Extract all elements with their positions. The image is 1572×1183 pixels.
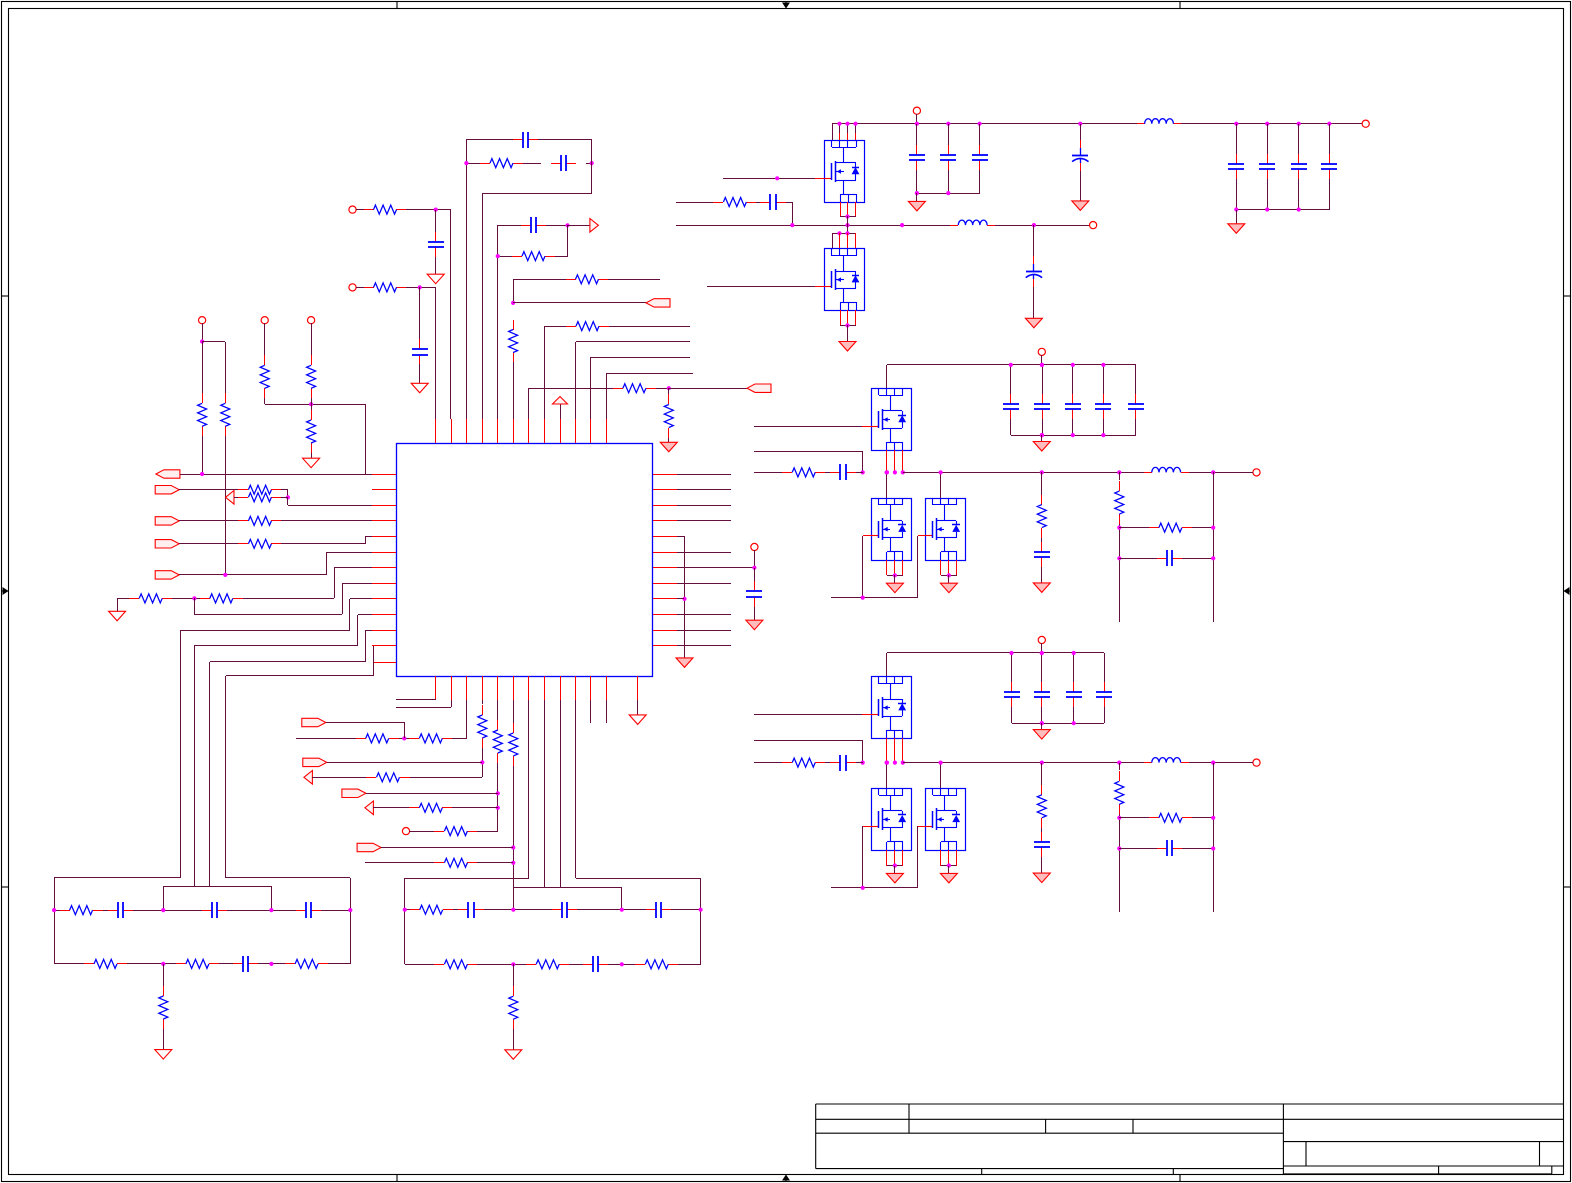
wire c3 ls2 src — [941, 865, 957, 867]
wire c3 bank gnd — [1041, 723, 1043, 730]
wire pin1-top vertical — [435, 290, 437, 419]
capacitor C12 — [646, 909, 656, 911]
junction f2 cap4 — [699, 908, 703, 912]
wire c2 bank col3 — [1103, 365, 1105, 394]
wire rc right edge — [567, 225, 569, 256]
junction c2 snr2 — [1211, 526, 1215, 530]
wire pin3-top vertical — [466, 163, 468, 419]
wire row862 — [365, 862, 434, 864]
wire pinB4 chain — [482, 700, 484, 704]
IC U1 bottom pins — [436, 676, 638, 700]
capacitor C4 — [419, 339, 421, 349]
wire pin6 lower — [513, 362, 515, 419]
tag outB1 — [302, 718, 326, 726]
capacitor C c3-1 — [1041, 682, 1043, 692]
junction c2 rail1 — [1040, 363, 1044, 367]
junction row388 — [667, 386, 671, 390]
resistor R33 — [513, 723, 515, 733]
wire pull3 bot — [311, 453, 313, 458]
wire c3 bank col1 — [1041, 653, 1043, 682]
transistor Q7 — [871, 788, 912, 851]
wire row630p — [366, 630, 372, 632]
wire c3 vg chain2 — [1041, 828, 1043, 833]
wire c2 vg chain — [1041, 472, 1043, 495]
wire c3 in2 drop — [862, 740, 864, 763]
resistor R8 — [311, 410, 313, 420]
transistor Q6 — [871, 676, 912, 739]
wire c1 rcrow — [676, 202, 713, 204]
wire row552 — [326, 552, 372, 554]
wire f1 gnd drop2 — [163, 1029, 165, 1050]
wire node A vertical — [466, 140, 468, 163]
wire riser543 — [365, 536, 367, 544]
junction c3 rail0 — [1009, 651, 1013, 655]
wire rrow614 — [677, 614, 731, 616]
junction c2 s2 — [947, 573, 951, 577]
capacitor C c3-2 — [1073, 682, 1075, 692]
capacitor C3 — [435, 232, 437, 242]
resistor R10 — [566, 279, 576, 281]
junction c2 sn2 — [1211, 470, 1215, 474]
wire c2 bankbus — [1011, 435, 1136, 437]
wire bulk2 drop2 — [1033, 287, 1035, 318]
wire row574 — [179, 574, 326, 576]
wire c2 bank col0 — [1010, 365, 1012, 394]
wire c1 midrail — [676, 225, 950, 227]
wire row279 — [513, 279, 566, 281]
wire c2 midrail R — [903, 472, 1144, 474]
wire c3 out — [1233, 762, 1253, 764]
wire c2 hs leads — [886, 450, 888, 472]
power arrow VDD — [553, 397, 568, 405]
capacitor C18 — [979, 145, 981, 155]
junction f2 cap3 — [620, 908, 624, 912]
junction c2 ls2 — [939, 470, 943, 474]
wire row630 — [180, 630, 350, 632]
wire q2 src bus — [840, 325, 856, 327]
junction c2 mid vg — [1040, 470, 1044, 474]
resistor R c3-vg — [1041, 785, 1043, 795]
resistor R29 — [366, 777, 376, 779]
wire gnd up — [117, 598, 119, 611]
capacitor C2 — [551, 163, 561, 165]
wire c2 ls1 src — [887, 575, 903, 577]
wire f1 shelf dropR — [271, 886, 273, 910]
wire q1 lead2 — [847, 124, 849, 140]
wire row738 — [296, 738, 356, 740]
wire c3 gate1 — [754, 714, 862, 716]
resistor R28 — [482, 705, 484, 715]
wire bank2 gnd — [1236, 210, 1238, 224]
wire tagB3 — [366, 793, 498, 795]
wire rrow645 — [677, 645, 731, 647]
capacitor C11 — [552, 909, 562, 911]
junction decap — [752, 566, 756, 570]
ground c2-B — [940, 583, 957, 593]
wire decap top — [754, 550, 756, 568]
wire feeder3 — [209, 662, 211, 886]
wire c2 out — [1233, 472, 1253, 474]
wire pin10 vertical — [575, 342, 577, 419]
wire c1 gate2 — [707, 286, 815, 288]
wire bank2 bus — [1236, 209, 1329, 211]
junction c3 gate — [861, 886, 865, 890]
wire pullcol1 top — [202, 323, 204, 342]
wire to arrow — [568, 225, 590, 227]
ground c3-D — [1033, 873, 1050, 883]
wire c3 hs leads — [886, 738, 888, 763]
wire c2 vg chain2 — [1041, 538, 1043, 543]
resistor R c3-sn2 — [1149, 817, 1159, 819]
wire pinB1 tail — [435, 699, 437, 700]
wire f2 shelf — [513, 887, 622, 889]
junction c3 ls1 — [885, 761, 889, 765]
wire bank1 col1 — [916, 124, 918, 145]
wire c3 vg chain3 — [1041, 857, 1043, 873]
junction c2 sn1 — [1117, 470, 1121, 474]
wire row497 — [234, 497, 240, 499]
junction pinB5b — [496, 806, 500, 810]
resistor R c3-sn — [1119, 771, 1121, 781]
resistor R20 — [200, 598, 210, 600]
wire rrow1 — [677, 489, 731, 491]
junction q1 src — [845, 214, 849, 218]
junction c3 s1 — [893, 863, 897, 867]
junction c1 mid4 — [1032, 223, 1036, 227]
junction c1 rail6 — [1265, 122, 1269, 126]
wire q2 leads — [832, 233, 834, 248]
resistor R9 — [512, 256, 522, 258]
capacitor C c3-vg — [1041, 832, 1043, 842]
wire c3 midrail R — [903, 762, 1144, 764]
wire rrow630 — [677, 630, 731, 632]
wire f2 botrow — [405, 964, 434, 966]
capacitor C7 — [202, 910, 212, 912]
wire row520 — [179, 520, 240, 522]
wire pin5 vertical — [497, 225, 499, 419]
wire c2 sn1 v — [1119, 472, 1121, 480]
inductor L2 — [950, 225, 958, 227]
wire c3 bank col2 — [1073, 653, 1075, 682]
junction rc bot — [496, 254, 500, 258]
resistor R c2-sn — [1119, 481, 1121, 491]
capacitor C c2-0 — [1010, 394, 1012, 404]
wire c2 bank gnd — [1041, 435, 1043, 441]
wire f2 gnd drop — [513, 964, 515, 986]
wire pinB6 chain2 — [513, 766, 515, 910]
junction c1 rail4 — [1078, 122, 1082, 126]
wire c2 sn1 v2 — [1119, 524, 1121, 622]
junction c2 busg — [1040, 433, 1044, 437]
wire c3 sn1 v2 — [1119, 814, 1121, 912]
wire bank2 col4 — [1329, 124, 1331, 154]
wire f2 top right — [576, 878, 701, 880]
capacitor C c2-2 — [1072, 394, 1074, 404]
wire c2 bank col2 — [1072, 365, 1074, 394]
wire c3 vin drop — [1041, 643, 1043, 653]
wire bank2 col1 — [1236, 124, 1238, 154]
junction c2 ls1 — [885, 470, 889, 474]
junction c2 bus1 — [1040, 433, 1044, 437]
wire pinB6 chain — [513, 700, 515, 723]
wire row777 — [312, 777, 366, 779]
terminal c1 vout2 — [1090, 222, 1097, 229]
capacitor C9 — [233, 963, 243, 965]
junction f1 cap1 — [52, 908, 56, 912]
wire pin8 vertical — [544, 326, 546, 419]
junction node B — [590, 161, 594, 165]
wire riser614L — [194, 598, 196, 614]
wire pin6 upper — [513, 279, 515, 303]
wire c3 in2 — [754, 740, 863, 742]
wire row341 — [576, 341, 690, 343]
capacitor C23 — [1329, 154, 1331, 164]
wire bank1 col2b — [948, 170, 950, 193]
junction c1 rail3 — [978, 122, 982, 126]
wire c3 hs drop — [886, 653, 888, 676]
tag in5 — [155, 571, 179, 579]
junction c3 rail2 — [1072, 651, 1076, 655]
junction c3 bus2 — [1072, 721, 1076, 725]
IC U1 top pins — [436, 419, 607, 443]
capacitor C c2-3 — [1103, 394, 1105, 404]
wire c2 s2 drop — [948, 575, 950, 583]
junction c1 rail7 — [1297, 122, 1301, 126]
wire gndcol right — [684, 536, 686, 658]
junction c3 snr1 — [1117, 816, 1121, 820]
capacitor C14 — [754, 581, 756, 591]
wire c3 s2 drop — [948, 866, 950, 873]
wire mid loop row — [466, 163, 480, 165]
arrow out1 — [590, 219, 599, 233]
wire f1 shelf — [163, 886, 271, 888]
junction c3 sn2 — [1211, 761, 1215, 765]
capacitor C21 — [1267, 154, 1269, 164]
capacitor C c2-1 — [1042, 394, 1044, 404]
junction f1 bot2 — [269, 962, 273, 966]
wire bank2 col1b — [1236, 179, 1238, 210]
tag outB2 — [303, 758, 327, 766]
wire bank2 col2 — [1267, 124, 1269, 154]
inductor L1 — [1137, 123, 1145, 125]
capacitor C15 — [760, 202, 770, 204]
junction c3 mid vg — [1040, 761, 1044, 765]
wire tagB1 — [326, 722, 404, 724]
wire row357 — [591, 357, 690, 359]
wire row567p — [334, 567, 372, 569]
wire row675 — [226, 675, 374, 677]
junction q2 t2 — [845, 231, 849, 235]
ground G12 — [908, 201, 925, 211]
junction c2 gate — [861, 596, 865, 600]
wire drop to tagrow — [365, 404, 367, 474]
wire row1 — [356, 209, 364, 211]
terminal J5 — [308, 317, 315, 324]
wire rrow0 — [677, 474, 731, 476]
capacitor C c2-in — [830, 472, 840, 474]
tag in1 — [156, 470, 180, 478]
junction c2 rail2 — [1071, 363, 1075, 367]
wire bulk2 drop — [1033, 225, 1035, 256]
resistor R15 — [238, 489, 248, 491]
wire riser567 — [334, 568, 336, 598]
capacitor C13 — [583, 964, 593, 966]
wire pinB5 chain2 — [497, 763, 499, 831]
resistor R32 — [434, 831, 444, 833]
wire bank1 col2 — [948, 124, 950, 145]
resistor R40 — [713, 202, 723, 204]
wire rrow552 — [677, 552, 731, 554]
wire row661 — [210, 661, 366, 663]
ground G8 — [505, 1050, 522, 1060]
wire q1 src bus — [840, 216, 856, 218]
resistor R25 — [163, 986, 165, 996]
resistor R16 — [238, 497, 248, 499]
wire f1 left edge — [54, 878, 56, 964]
wire cap drop2b — [419, 364, 421, 383]
wire q2 gnd drop — [847, 325, 849, 342]
resistor R1 — [480, 163, 490, 165]
wire c3 snc rung — [1119, 848, 1157, 850]
ground G3 — [303, 458, 320, 468]
junction q1 d2 — [845, 122, 849, 126]
wire to tag388 — [669, 388, 747, 390]
wire pin9 vertical — [560, 404, 562, 419]
wire pinB5 chain — [497, 700, 499, 720]
wire jog to pin4 — [482, 193, 592, 195]
wire c3 bank col3 — [1104, 653, 1106, 682]
resistor R12 — [613, 388, 623, 390]
wire riser614 — [357, 615, 359, 646]
wire c3 bankbus — [1012, 723, 1104, 725]
wire c3 g2 riser — [917, 826, 919, 888]
wire riser599 — [349, 599, 351, 630]
wire row599p — [350, 598, 372, 600]
wire cap drop2 — [419, 287, 421, 340]
wire row2 corner — [435, 287, 437, 419]
junction q1 d1 — [837, 122, 841, 126]
tag out302 — [646, 299, 670, 307]
wire bulk1 drop2 — [1080, 171, 1082, 201]
terminal J3 — [199, 317, 206, 324]
wire node B drop — [591, 140, 593, 193]
wire c3 bank col0 — [1011, 653, 1013, 682]
terminal c2 vin — [1038, 348, 1045, 355]
junction f2 cap1 — [403, 908, 407, 912]
wire q1 src drop — [847, 216, 849, 225]
wire c2 snr rung — [1119, 527, 1149, 529]
junction c3 in2 — [861, 761, 865, 765]
junction c2 m3 — [901, 470, 905, 474]
wire pull2 top — [264, 323, 266, 355]
wire row2 — [356, 287, 364, 289]
junction c1 rail1 — [915, 122, 919, 126]
ground G15 — [1025, 318, 1042, 328]
junction c1 mid1 — [790, 223, 794, 227]
transistor Q3 — [871, 388, 912, 451]
ground c2-C — [1033, 442, 1050, 452]
junction pinB4 — [480, 760, 484, 764]
junction pull2 — [309, 402, 313, 406]
terminal J1 — [349, 206, 356, 213]
wire row831 — [409, 831, 434, 833]
wire resrow598 — [117, 598, 129, 600]
capacitor C5 — [521, 225, 531, 227]
wire c2 g2 riser — [917, 536, 919, 598]
capacitor C19 bulk — [1080, 140, 1082, 148]
resistor R4 — [202, 393, 204, 403]
ground G10 — [746, 620, 763, 630]
wire c2 in2 drop — [862, 452, 864, 472]
resistor R31 — [409, 807, 419, 809]
wire c2 midrail L — [754, 472, 782, 474]
wire c2 s1 drop — [894, 575, 896, 583]
wire pin11 vertical — [590, 357, 592, 419]
wire c2 gate1 — [754, 426, 862, 428]
junction f1 cap3 — [269, 908, 273, 912]
wire c2 vg chain3 — [1041, 567, 1043, 583]
junction c3 bus1 — [1040, 721, 1044, 725]
arrow fbB1 — [304, 771, 313, 785]
junction q2 t1 — [837, 231, 841, 235]
resistor R c2-in — [782, 472, 792, 474]
wire c2 ls1 drop — [886, 472, 888, 498]
wire rrow598 — [677, 598, 684, 600]
wire rc loop bottom — [498, 256, 512, 258]
junction c2 bus3 — [1101, 433, 1105, 437]
capacitor C22 — [1298, 154, 1300, 164]
resistor R6 — [264, 355, 266, 365]
wire f1 caprow — [54, 910, 60, 912]
wire cap drop1 — [435, 210, 437, 232]
wire tagB2 — [327, 762, 482, 764]
title block — [816, 1104, 1564, 1175]
wire cap drop1b — [435, 257, 437, 274]
capacitor C c2-vg — [1041, 542, 1043, 552]
wire row583 — [342, 583, 372, 585]
junction bank2 bus2 — [1265, 207, 1269, 211]
terminal J2 — [349, 284, 356, 291]
wire q1 lead3 — [855, 124, 857, 140]
wire pin4-top vertical — [482, 193, 484, 419]
ground c2-D — [1033, 583, 1050, 593]
ground c3-B — [940, 873, 957, 883]
wire f1 gnd drop — [163, 964, 165, 986]
wire c1 rail — [832, 123, 1137, 125]
capacitor C8 — [296, 910, 306, 912]
wire c2 ls2 src — [941, 575, 957, 577]
wire c3 sn2 v — [1213, 763, 1215, 912]
junction f2 bot2 — [620, 962, 624, 966]
wire c2 gatebus — [831, 597, 918, 599]
wire c2 ls2 drop — [940, 472, 942, 498]
resistor R11 — [513, 320, 515, 330]
junction pinB6b — [511, 861, 515, 865]
resistor R19 — [129, 598, 139, 600]
wire jog497 — [287, 497, 289, 505]
transistor Q8 — [925, 788, 966, 851]
junction c3 snr2 — [1211, 816, 1215, 820]
junction c2 s1 — [893, 573, 897, 577]
wire riser583 — [342, 583, 344, 614]
junction bank2 bus3 — [1297, 207, 1301, 211]
wire row388 — [529, 388, 613, 390]
wire decap mid — [754, 568, 756, 582]
resistor R22 — [84, 963, 94, 965]
terminal c1 vin — [913, 107, 920, 114]
junction bank2 bus1 — [1234, 207, 1238, 211]
wire c2 sn2 v — [1213, 472, 1215, 622]
